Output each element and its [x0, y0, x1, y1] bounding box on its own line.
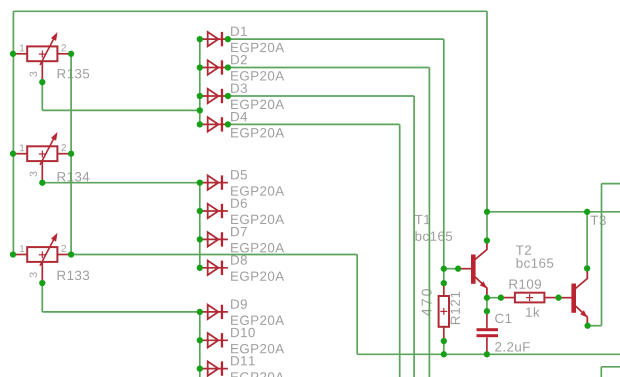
resistor R135 (trimmer potentiometer): [27, 32, 57, 65]
wire D3 cathode horizontal: [228, 95, 414, 97]
D8 value label EGP20A: [231, 271, 284, 280]
R134 name label: [58, 172, 90, 181]
wire bottom right corner horizontal: [601, 366, 620, 368]
wire bottom right corner vertical: [600, 367, 602, 377]
diode D6: [200, 204, 228, 218]
node R133.3: [39, 280, 45, 286]
wire anode bus D9-D11 to bottom edge: [199, 312, 201, 377]
wire D2 cathode vertical to bottom edge: [428, 68, 430, 377]
D11 name label: [231, 356, 255, 365]
T2 value label bc165: [517, 258, 554, 268]
wire D3 cathode vertical to bottom edge: [413, 96, 415, 377]
node D10 anode: [197, 337, 203, 343]
wire R135.3 to diode column node: [42, 109, 200, 111]
diode D8: [200, 261, 228, 275]
D3 name label: [231, 83, 247, 92]
wire base tap to T1 base: [444, 268, 458, 270]
resistor R109: [501, 293, 559, 303]
node D7 anode: [197, 236, 203, 242]
node collector rail junction: [484, 209, 490, 215]
wire T2 emitter net vertical: [601, 184, 603, 326]
R109 value label 1k: [526, 307, 540, 317]
R134 pin 1 lead: [13, 153, 27, 155]
node D8 anode: [197, 265, 203, 271]
wire R133.3 down: [41, 283, 43, 312]
D10 name label: [231, 328, 255, 337]
wire D1 cathode vertical to R121: [443, 39, 445, 283]
node T1 emitter / R109 left net: [484, 295, 490, 301]
wire left column vertical (R135.1-R134.1-R133.1): [12, 11, 14, 254]
R135 pin number 1: [20, 45, 24, 52]
node T2 collector rail junction: [584, 209, 590, 215]
node R135.1: [10, 51, 16, 57]
R134 pin 2 lead: [57, 153, 71, 155]
wire from right edge toward T2 emitter (top): [602, 183, 620, 185]
node D9 anode: [197, 309, 203, 315]
node R135.3: [39, 79, 45, 85]
node D1 anode: [197, 36, 203, 42]
R133 pin 3 lead: [41, 262, 43, 283]
wire anode bus D5-D8: [199, 183, 201, 268]
wire D4 cathode horizontal: [228, 123, 400, 125]
node T2 emitter: [584, 323, 590, 329]
node R121 rail junction: [441, 351, 447, 357]
R135 pin number 3: [30, 72, 37, 77]
R133 pin 1 lead: [13, 254, 27, 256]
R133 name label: [58, 271, 90, 280]
node D1 cathode: [225, 36, 231, 42]
R135 pin 1 lead: [13, 53, 27, 55]
R133 pin number 2: [61, 245, 66, 252]
resistor R121: [439, 283, 449, 341]
wire R133.3 to D9 anode: [42, 311, 200, 313]
wire R133.2 net vertical down: [356, 255, 358, 355]
node C1 top: [484, 308, 490, 314]
wire T1 emitter node to C1: [486, 298, 488, 312]
T1 name label: [415, 215, 430, 224]
diode D4: [200, 117, 228, 131]
wire R134.3 to D5 anode: [42, 182, 200, 184]
R121 value label 470 (rotated): [422, 289, 432, 316]
wire T2 collector feed: [586, 212, 588, 269]
transistor T2: [559, 268, 588, 325]
resistor R133 (trimmer potentiometer): [27, 233, 57, 266]
D2 value label EGP20A: [231, 71, 284, 80]
node D3 cathode: [225, 93, 231, 99]
R135 pin 3 lead: [41, 61, 43, 82]
node R133.1: [10, 251, 16, 257]
R135 pin number 2: [61, 44, 66, 51]
transistor T1: [458, 241, 487, 298]
wire R133.2 long horizontal: [71, 254, 357, 256]
node R121 bottom: [441, 338, 447, 344]
D4 name label: [231, 112, 247, 121]
node R135.3 junction on anode bus: [197, 107, 203, 113]
node D4 anode: [197, 121, 203, 127]
wire T1 emitter to R109 node: [487, 297, 501, 299]
wire R135.3 down: [41, 82, 43, 110]
D3 value label EGP20A: [231, 100, 284, 109]
D5 value label EGP20A: [231, 186, 284, 195]
node D6 anode: [197, 208, 203, 214]
R121 name label (rotated): [451, 292, 460, 324]
node D5 anode: [197, 179, 203, 185]
D2 name label: [231, 55, 247, 64]
node D4 cathode: [225, 121, 231, 127]
wire anode bus D1-D4: [199, 39, 201, 124]
diode D3: [200, 89, 228, 103]
T3 name label (transistor off right edge): [591, 216, 606, 225]
D1 name label: [231, 27, 247, 36]
node D2 anode: [197, 64, 203, 70]
wire T2 emitter net horizontal: [588, 325, 602, 327]
wire right vertical top rail to T1 collector: [486, 11, 488, 240]
wire D1 cathode horizontal: [228, 38, 444, 40]
node R134.3: [39, 180, 45, 186]
D11 value label EGP20A: [231, 372, 284, 377]
R134 pin 3 lead: [41, 161, 43, 182]
D8 name label: [231, 255, 247, 264]
diode D11: [200, 361, 228, 375]
diode D1: [200, 32, 228, 46]
resistor R134 (trimmer potentiometer): [27, 132, 57, 165]
wire middle vertical (R135.2-R134.2-R133.2): [70, 54, 72, 255]
diode D5: [200, 175, 228, 189]
R135 pin 2 lead: [57, 53, 71, 55]
D7 name label: [231, 227, 247, 236]
D6 name label: [231, 198, 247, 207]
D7 value label EGP20A: [231, 243, 284, 252]
node R121 top: [441, 280, 447, 286]
node D2 cathode: [225, 64, 231, 70]
R134 pin number 2: [61, 144, 66, 151]
node R135.2: [68, 51, 74, 57]
D10 value label EGP20A: [231, 344, 284, 353]
D9 name label: [231, 299, 247, 308]
node base tap on D1 net: [441, 266, 447, 272]
diode D9: [200, 305, 228, 319]
capacitor C1: [477, 311, 499, 354]
wire D4 cathode vertical to bottom edge: [399, 124, 401, 377]
T1 value label bc165: [415, 231, 452, 241]
D6 value label EGP20A: [231, 215, 284, 224]
C1 value label 2.2uF: [495, 342, 530, 351]
diode D2: [200, 60, 228, 74]
R134 pin number 3: [30, 172, 37, 177]
node R109 left pin: [498, 295, 504, 301]
node C1 bottom rail junction: [484, 351, 490, 357]
wire top rail from left column to right vertical: [13, 10, 487, 12]
diode D7: [200, 232, 228, 246]
R133 pin 2 lead: [57, 254, 71, 256]
D5 name label: [231, 170, 247, 179]
wire D2 cathode horizontal: [228, 67, 430, 69]
node D3 anode: [197, 93, 203, 99]
node T1 base: [455, 266, 461, 272]
node R109 right pin / T2 base: [555, 295, 561, 301]
node R134.2: [68, 151, 74, 157]
diode D10: [200, 333, 228, 347]
R133 pin number 1: [20, 245, 24, 252]
node T2 collector: [584, 265, 590, 271]
wire bottom rail: [357, 353, 620, 355]
node R134.1: [10, 151, 16, 157]
node R133.2: [68, 251, 74, 257]
T2 name label: [516, 245, 531, 254]
C1 name label: [495, 314, 511, 323]
D9 value label EGP20A: [231, 316, 284, 325]
R133 pin number 3: [30, 272, 37, 277]
wire collector rail to right edge: [487, 211, 620, 213]
D1 value label EGP20A: [231, 43, 284, 52]
node D11 anode: [197, 365, 203, 371]
wire R121 bottom to rail: [443, 341, 445, 354]
node T1 collector: [484, 237, 490, 243]
D4 value label EGP20A: [231, 128, 284, 137]
R109 name label: [509, 279, 541, 288]
R134 pin number 1: [20, 144, 24, 151]
R135 name label: [58, 69, 90, 78]
